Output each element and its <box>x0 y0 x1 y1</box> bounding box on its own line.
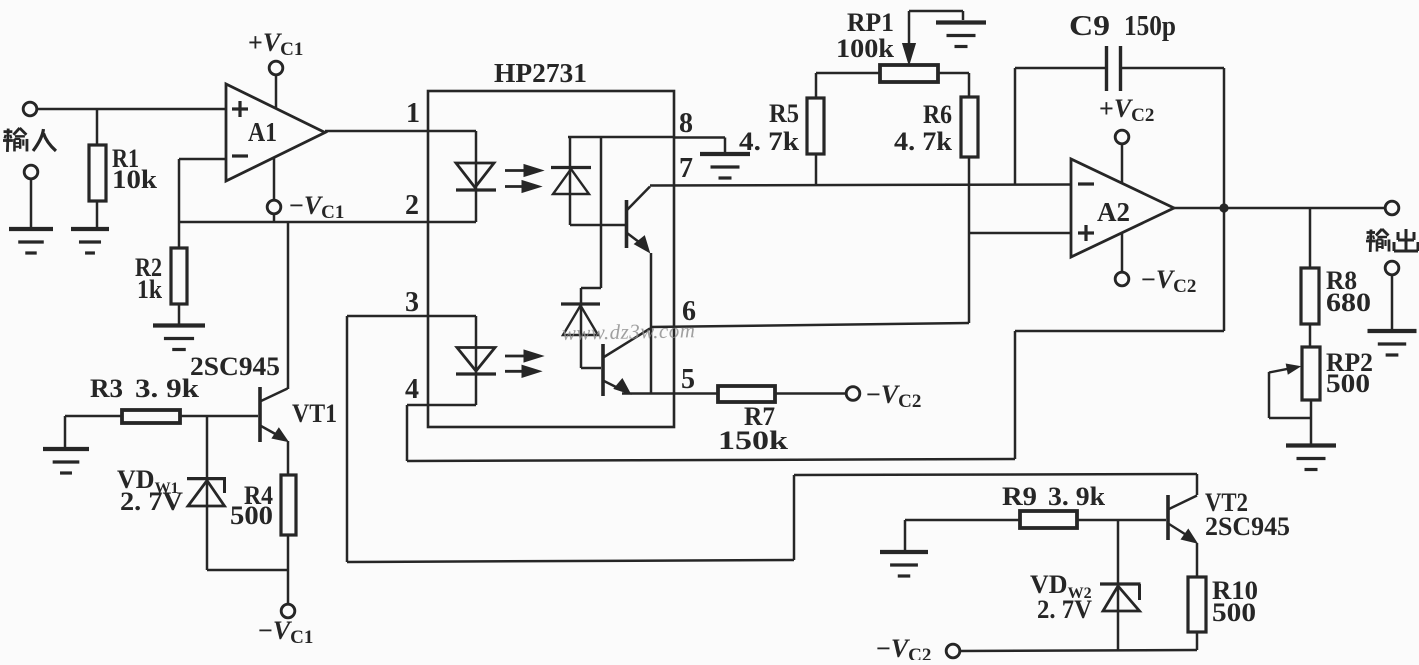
svg-text:1: 1 <box>406 98 420 129</box>
svg-text:500: 500 <box>230 501 273 530</box>
svg-text:A2: A2 <box>1097 197 1130 227</box>
svg-text:2. 7V: 2. 7V <box>120 487 183 516</box>
svg-text:A1: A1 <box>248 117 277 147</box>
svg-text:500: 500 <box>1212 598 1256 627</box>
svg-text:150k: 150k <box>718 426 789 455</box>
svg-text:3. 9k: 3. 9k <box>1048 482 1106 511</box>
svg-text:RP1: RP1 <box>847 8 894 37</box>
svg-text:150p: 150p <box>1124 10 1176 42</box>
svg-text:R9: R9 <box>1002 482 1037 511</box>
svg-text:VT1: VT1 <box>292 399 337 428</box>
svg-text:2SC945: 2SC945 <box>190 352 280 381</box>
svg-text:4: 4 <box>405 374 419 405</box>
svg-text:4. 7k: 4. 7k <box>894 127 953 156</box>
svg-text:C9: C9 <box>1069 10 1110 42</box>
svg-text:4. 7k: 4. 7k <box>739 127 800 156</box>
svg-text:R6: R6 <box>923 100 952 129</box>
svg-text:8: 8 <box>679 108 693 139</box>
svg-text:www.dz3w.com: www.dz3w.com <box>562 318 696 345</box>
svg-text:R5: R5 <box>769 99 799 128</box>
svg-text:R3: R3 <box>90 374 123 403</box>
svg-text:3: 3 <box>405 287 419 318</box>
svg-text:7: 7 <box>679 153 693 184</box>
svg-text:680: 680 <box>1326 288 1371 317</box>
svg-text:HP2731: HP2731 <box>494 58 587 88</box>
svg-text:1k: 1k <box>137 275 162 304</box>
svg-text:500: 500 <box>1326 369 1370 398</box>
svg-text:2SC945: 2SC945 <box>1205 512 1290 541</box>
svg-text:10k: 10k <box>112 165 158 194</box>
svg-text:100k: 100k <box>836 34 895 63</box>
svg-text:2: 2 <box>405 190 419 221</box>
svg-text:2. 7V: 2. 7V <box>1037 595 1092 624</box>
svg-text:5: 5 <box>681 364 695 395</box>
